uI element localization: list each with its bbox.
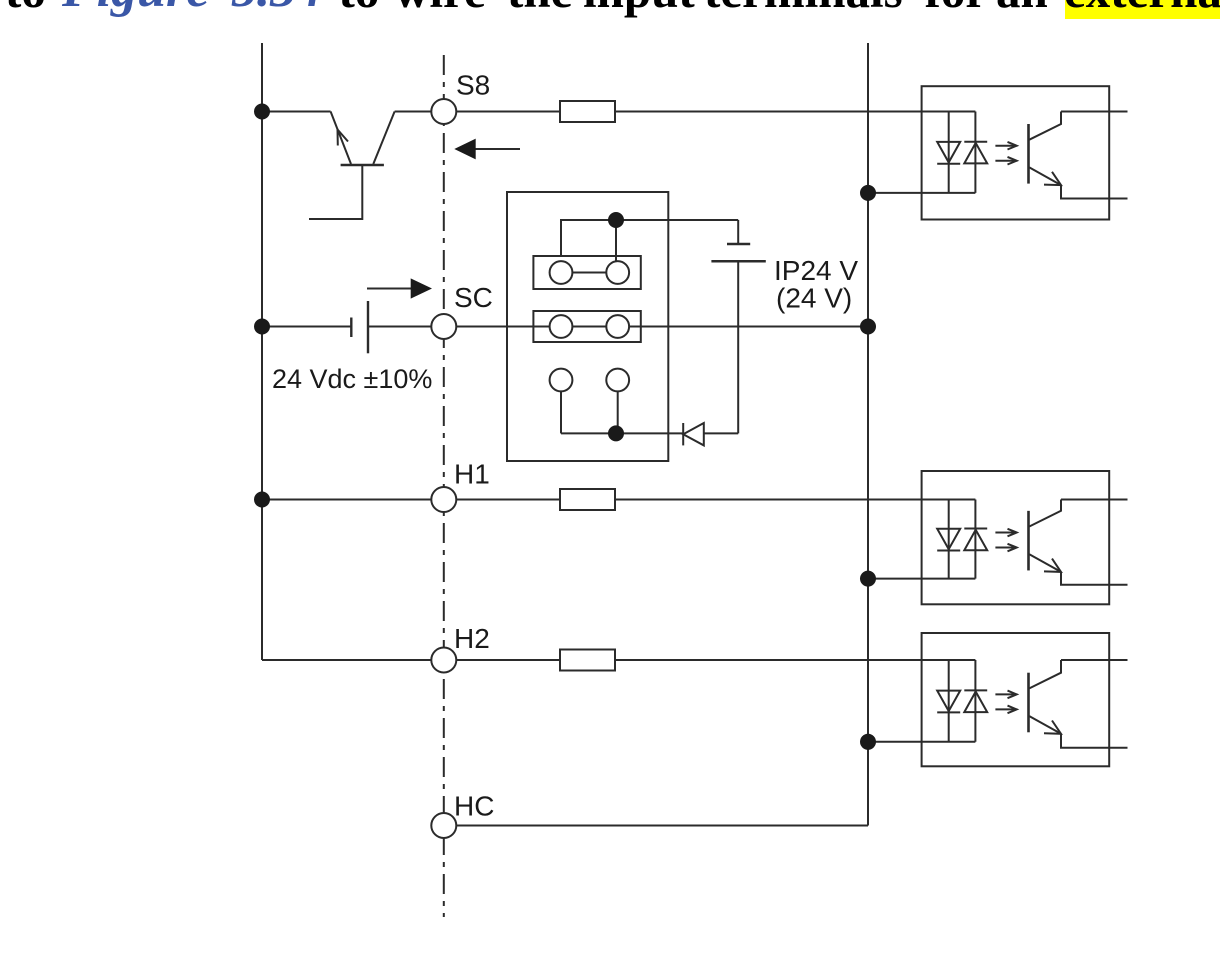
- wire left vertical bus: [261, 43, 263, 660]
- optocoupler U3 package outline: [922, 633, 1110, 766]
- transistor Q1 external input transistor: [309, 112, 431, 220]
- terminal H2 circle symbol: [431, 648, 456, 673]
- resistor R1 on S8 line: [560, 101, 615, 122]
- wire right vertical bus: [867, 43, 869, 826]
- switch row 3 left contact circle: [550, 369, 573, 392]
- wire HC terminal to right bus: [456, 825, 868, 827]
- svg-text:(24 V): (24 V): [776, 283, 852, 314]
- arrow current direction into SC: [367, 278, 432, 298]
- optocoupler U2 LED rails: [948, 500, 950, 579]
- resistor R2 on H1 line: [560, 489, 615, 510]
- optocoupler U3 light arrows: [995, 693, 1015, 695]
- switch row 2 housing: [533, 311, 640, 342]
- optocoupler U1 phototransistor: [1027, 124, 1030, 184]
- diode D1: [683, 423, 738, 445]
- wire row3 to diode: [561, 432, 683, 434]
- switch row 1 closed contact line: [561, 272, 618, 274]
- DIP switch block outline: [507, 192, 668, 461]
- junction dot row3: [608, 425, 624, 441]
- arrow into S8 (sinking current): [454, 139, 520, 160]
- switch row 1 left contact circle: [550, 261, 573, 284]
- switch row 2 right contact circle: [606, 315, 629, 338]
- svg-text:H2: H2: [454, 623, 490, 654]
- wire jumper to IP24V: [616, 219, 738, 221]
- optocoupler U1 light arrows: [995, 145, 1015, 147]
- switch row 3 left lead: [560, 391, 562, 433]
- wire S8 terminal to resistor: [456, 111, 560, 113]
- svg-text:IP24 V: IP24 V: [774, 255, 858, 286]
- svg-text:24 Vdc ±10%: 24 Vdc ±10%: [272, 364, 432, 394]
- svg-text:S8: S8: [456, 70, 490, 101]
- power source IP24V: [711, 220, 765, 433]
- switch row 1 housing: [533, 256, 640, 289]
- optocoupler U2 LED up (right): [964, 530, 987, 550]
- switch row 1 right contact circle: [606, 261, 629, 284]
- svg-text:SC: SC: [454, 282, 493, 313]
- optocoupler U1 package outline: [922, 86, 1110, 219]
- wire sink/source jumper top: [561, 220, 616, 261]
- switch row 3 right lead: [617, 391, 619, 433]
- terminal H1 circle symbol: [431, 487, 456, 512]
- wire H2 terminal to resistor: [456, 659, 560, 661]
- wire H1 row left segment: [262, 499, 431, 501]
- wire S8 row left segment: [262, 111, 331, 113]
- switch row 3 right contact circle: [606, 369, 629, 392]
- junction dot jumper top: [608, 212, 624, 228]
- optocoupler U3 LED down (left): [937, 691, 960, 712]
- optocoupler U1 LED down (left): [937, 142, 960, 163]
- optocoupler U1 bottom input wire from bus: [868, 192, 975, 194]
- terminal S8 circle: [431, 99, 456, 124]
- optocoupler U2 bottom input wire from bus: [868, 578, 975, 580]
- junction dot SC at right bus: [860, 319, 876, 335]
- optocoupler U2 package outline: [922, 471, 1110, 604]
- optocoupler U3 bottom input wire from bus: [868, 741, 975, 743]
- wire SC terminal to right bus: [456, 326, 868, 328]
- optocoupler U3 phototransistor: [1027, 673, 1030, 733]
- optocoupler U3 LED rails: [948, 660, 950, 742]
- optocoupler U1 LED rails: [948, 112, 950, 193]
- resistor R3 on H2 line: [560, 650, 615, 671]
- highlight band for word external: [1065, 0, 1220, 19]
- wire H1 terminal to resistor: [456, 499, 560, 501]
- battery 24 Vdc source: [351, 301, 431, 353]
- junction dot U1 input at right bus: [860, 185, 876, 201]
- terminal SC circle symbol: [431, 314, 456, 339]
- wire H1 resistor to optocoupler U2: [615, 499, 975, 501]
- optocoupler U2 phototransistor: [1027, 511, 1030, 571]
- dashed terminal centerline: [443, 55, 445, 917]
- svg-text:H1: H1: [454, 459, 490, 490]
- wire S8 resistor to optocoupler U1: [615, 111, 975, 113]
- optocoupler U3 LED up (right): [964, 692, 987, 713]
- junction dot SC at left bus: [254, 319, 270, 335]
- wire SC row from bus to battery: [262, 326, 351, 328]
- wire H2 resistor to optocoupler U3: [615, 659, 975, 661]
- optocoupler U2 light arrows: [995, 532, 1015, 534]
- optocoupler U1 LED up (right): [964, 143, 987, 164]
- junction dot U2 input at right bus: [860, 571, 876, 587]
- junction dot H1 at left bus: [254, 492, 270, 508]
- switch row 2 left contact circle: [550, 315, 573, 338]
- junction dot S8 at left bus: [254, 104, 270, 120]
- junction dot U3 input at right bus: [860, 734, 876, 750]
- wire H2 row left segment: [262, 659, 431, 661]
- terminal HC circle symbol: [431, 813, 456, 838]
- svg-text:HC: HC: [454, 791, 494, 822]
- optocoupler U2 LED down (left): [937, 529, 960, 549]
- sentence fragment top line: [5, 0, 46, 15]
